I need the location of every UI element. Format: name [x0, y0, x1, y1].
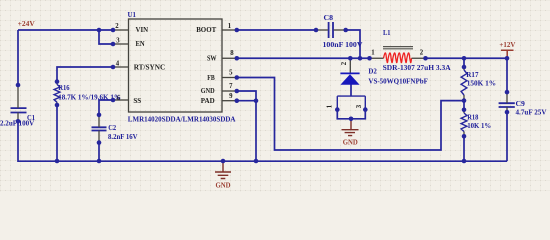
pin 4 RT/SYNC stub	[113, 66, 129, 68]
L1 pin 1	[370, 57, 384, 59]
C8 right pin	[334, 29, 346, 31]
capacitor C8	[329, 22, 333, 38]
L1 pin 2	[412, 57, 426, 59]
svg-text:U1: U1	[128, 10, 137, 19]
pin 5 FB stub	[222, 77, 237, 79]
svg-text:4.7uF 25V: 4.7uF 25V	[516, 108, 547, 117]
diode D2 triangle	[340, 74, 359, 85]
svg-text:8: 8	[230, 50, 234, 57]
svg-text:SDR-1307 27uH 3.3A: SDR-1307 27uH 3.3A	[383, 63, 452, 72]
wire PAD pin 9 branch	[237, 100, 256, 102]
wire D2 anode stub	[350, 84, 352, 96]
svg-text:GND: GND	[201, 86, 215, 95]
wire VOUT down to C9	[506, 58, 508, 92]
svg-text:5: 5	[229, 70, 233, 77]
svg-text:VIN: VIN	[136, 25, 149, 34]
pin 9 PAD stub	[222, 100, 237, 102]
wire L1 to VOUT rail	[426, 57, 508, 59]
svg-text:RT/SYNC: RT/SYNC	[134, 62, 166, 71]
svg-text:1: 1	[327, 104, 334, 108]
wire GND bottom rail	[18, 121, 507, 161]
capacitor C1	[11, 108, 27, 112]
wire R18 bottom to rail	[463, 136, 465, 161]
C1 top pin	[17, 85, 19, 108]
C9 bottom pin	[506, 107, 508, 112]
svg-text:C2: C2	[108, 123, 116, 132]
svg-text:SW: SW	[207, 54, 217, 63]
svg-text:C8: C8	[324, 13, 334, 22]
pin 2 VIN stub	[113, 29, 129, 31]
pin 3 EN stub	[113, 43, 129, 45]
C1 bottom pin	[17, 113, 19, 122]
wire R16 bottom to rail	[56, 105, 58, 161]
svg-text:2: 2	[420, 50, 424, 57]
wire EN branch to pin 3	[99, 30, 113, 44]
svg-text:D2: D2	[368, 67, 377, 76]
C2 bottom pin	[98, 131, 100, 143]
svg-text:SS: SS	[133, 96, 141, 105]
IC U1 LMR14020 body	[129, 19, 223, 112]
R16 pins	[56, 82, 58, 105]
wire C8 to SW node	[346, 30, 360, 58]
svg-text:9: 9	[229, 93, 233, 100]
svg-text:100nF 100V: 100nF 100V	[323, 40, 364, 49]
svg-text:3: 3	[356, 104, 363, 108]
wire +24V down to C1	[17, 30, 19, 85]
wire D2 anode loop to ground	[337, 110, 365, 119]
svg-text:VS-50WQ10FNPbF: VS-50WQ10FNPbF	[368, 76, 428, 85]
R17 pins	[463, 67, 465, 101]
svg-text:GND: GND	[216, 182, 231, 190]
svg-text:10K 1%: 10K 1%	[467, 121, 491, 130]
inductor L1 coil	[384, 53, 412, 63]
diode D2 cathode bar	[340, 72, 359, 74]
svg-text:R17: R17	[466, 70, 478, 79]
svg-text:1: 1	[228, 23, 232, 30]
D2 cathode pin 2	[349, 58, 351, 73]
wire SS pin 6 to C2	[99, 100, 113, 115]
wire junction dots	[97, 28, 102, 33]
wire VOUT to R17 top	[463, 58, 465, 67]
pin 6 SS stub	[113, 99, 129, 101]
svg-text:+24V: +24V	[18, 19, 36, 28]
wire GND pin 7 to rail	[237, 91, 256, 161]
C9 top pin	[506, 92, 508, 103]
ground symbol main GND	[215, 161, 231, 179]
D2 anode pins 1 and 3	[337, 96, 365, 110]
C2 top pin	[98, 115, 100, 127]
svg-text:LMR14020SDDA/LMR14030SDDA: LMR14020SDDA/LMR14030SDDA	[128, 114, 236, 123]
wire RT/SYNC pin 4 to R16	[57, 67, 113, 82]
svg-text:BOOT: BOOT	[196, 25, 217, 34]
svg-text:150K 1%: 150K 1%	[467, 79, 496, 88]
wire FB feedback loop	[237, 78, 464, 151]
pin 8 SW stub	[222, 57, 237, 59]
C8 left pin	[316, 29, 328, 31]
svg-text:FB: FB	[207, 73, 214, 82]
svg-text:4: 4	[116, 60, 120, 67]
capacitor C9	[499, 103, 515, 107]
svg-text:3: 3	[116, 37, 120, 44]
svg-text:R16: R16	[58, 83, 70, 92]
ground symbol under D2	[342, 119, 359, 136]
wire C2 bottom to rail	[98, 143, 100, 161]
pin 1 BOOT stub	[222, 29, 237, 31]
wire C9 bottom to rail	[506, 112, 508, 161]
power flag +12V	[501, 50, 514, 58]
wire SW rail to L1	[237, 57, 370, 59]
wire BOOT pin 1 to C8	[237, 29, 316, 31]
svg-text:PAD: PAD	[201, 96, 215, 105]
svg-text:2: 2	[341, 61, 348, 65]
svg-text:1: 1	[371, 50, 375, 57]
pin 7 GND stub	[222, 90, 237, 92]
R18 pins	[463, 110, 465, 137]
svg-text:L1: L1	[383, 28, 391, 37]
wire +24V rail	[18, 29, 113, 31]
svg-text:EN: EN	[136, 39, 146, 48]
svg-text:+12V: +12V	[499, 40, 515, 49]
svg-text:GND: GND	[343, 138, 358, 146]
wire R17-R18 node	[463, 101, 465, 110]
capacitor C2	[92, 127, 107, 130]
inductor L1 core bars	[383, 47, 413, 49]
svg-text:8.2nF 16V: 8.2nF 16V	[108, 132, 138, 141]
svg-text:2: 2	[115, 23, 119, 30]
svg-text:7: 7	[229, 83, 233, 90]
